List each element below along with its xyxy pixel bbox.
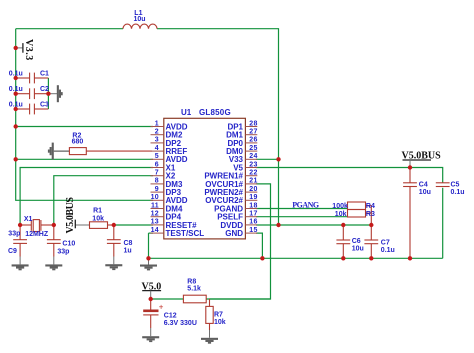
svg-text:100k: 100k [332,203,348,210]
svg-text:R3: R3 [366,211,375,218]
svg-text:27: 27 [249,129,257,136]
svg-text:16: 16 [249,219,257,226]
svg-text:R1: R1 [93,207,102,214]
svg-text:C9: C9 [8,248,17,255]
svg-text:R8: R8 [187,278,196,285]
svg-text:33p: 33p [57,248,69,255]
svg-text:V5.0: V5.0 [142,281,162,292]
svg-text:GL850G: GL850G [199,108,231,117]
svg-text:C12: C12 [164,313,177,320]
svg-text:C5: C5 [451,182,460,189]
svg-text:28: 28 [249,120,257,127]
svg-text:7: 7 [155,170,159,177]
svg-text:5.1k: 5.1k [187,286,201,293]
svg-text:15: 15 [249,227,257,234]
svg-text:TEST/SCL: TEST/SCL [166,229,205,238]
svg-text:22: 22 [249,170,257,177]
svg-text:25: 25 [249,145,257,152]
svg-text:PGANG: PGANG [292,200,319,209]
svg-text:20: 20 [249,186,257,193]
svg-text:11: 11 [151,202,159,209]
svg-text:3: 3 [155,137,159,144]
svg-text:C1: C1 [40,70,49,77]
svg-text:0.1u: 0.1u [381,247,395,254]
svg-text:10k: 10k [335,211,347,218]
svg-text:10u: 10u [352,246,364,253]
svg-text:1: 1 [155,120,159,127]
svg-text:C2: C2 [40,86,49,93]
svg-text:680: 680 [72,139,84,146]
svg-text:0.1u: 0.1u [9,102,23,109]
svg-text:5: 5 [155,153,159,160]
svg-text:18: 18 [249,202,257,209]
svg-text:6.3V 330U: 6.3V 330U [164,320,197,327]
svg-text:C7: C7 [381,240,390,247]
svg-text:8: 8 [155,178,159,185]
svg-text:19: 19 [249,194,257,201]
svg-text:C8: C8 [124,240,133,247]
svg-text:X1: X1 [24,216,33,223]
svg-text:0.1u: 0.1u [451,189,465,196]
svg-text:R4: R4 [366,203,375,210]
svg-text:C6: C6 [352,238,361,245]
svg-text:1u: 1u [124,247,132,254]
svg-text:33p: 33p [8,230,20,237]
svg-text:10u: 10u [419,189,431,196]
svg-text:U1: U1 [181,108,192,117]
svg-text:C10: C10 [62,241,75,248]
svg-text:0.1u: 0.1u [9,86,23,93]
svg-text:GND: GND [225,229,243,238]
svg-text:13: 13 [151,219,159,226]
svg-text:10k: 10k [214,319,226,326]
svg-text:9: 9 [155,186,159,193]
svg-text:2: 2 [155,129,159,136]
svg-text:+: + [159,303,164,312]
svg-text:26: 26 [249,137,257,144]
svg-text:C4: C4 [419,182,428,189]
svg-text:10k: 10k [92,215,104,222]
svg-text:C3: C3 [40,102,49,109]
svg-text:R7: R7 [214,311,223,318]
svg-text:21: 21 [249,178,257,185]
svg-text:0.1u: 0.1u [9,70,23,77]
svg-text:17: 17 [249,211,257,218]
svg-text:V5.0BUS: V5.0BUS [65,197,76,234]
svg-text:10u: 10u [134,16,146,23]
svg-text:24: 24 [249,153,257,160]
svg-text:12: 12 [151,211,159,218]
svg-text:23: 23 [249,161,257,168]
svg-text:14: 14 [151,227,159,234]
svg-text:6: 6 [155,161,159,168]
svg-text:V3.3: V3.3 [23,39,34,60]
svg-text:4: 4 [155,145,159,152]
svg-text:12MHZ: 12MHZ [25,231,49,238]
svg-text:V5.0BUS: V5.0BUS [402,150,442,161]
svg-text:10: 10 [151,194,159,201]
